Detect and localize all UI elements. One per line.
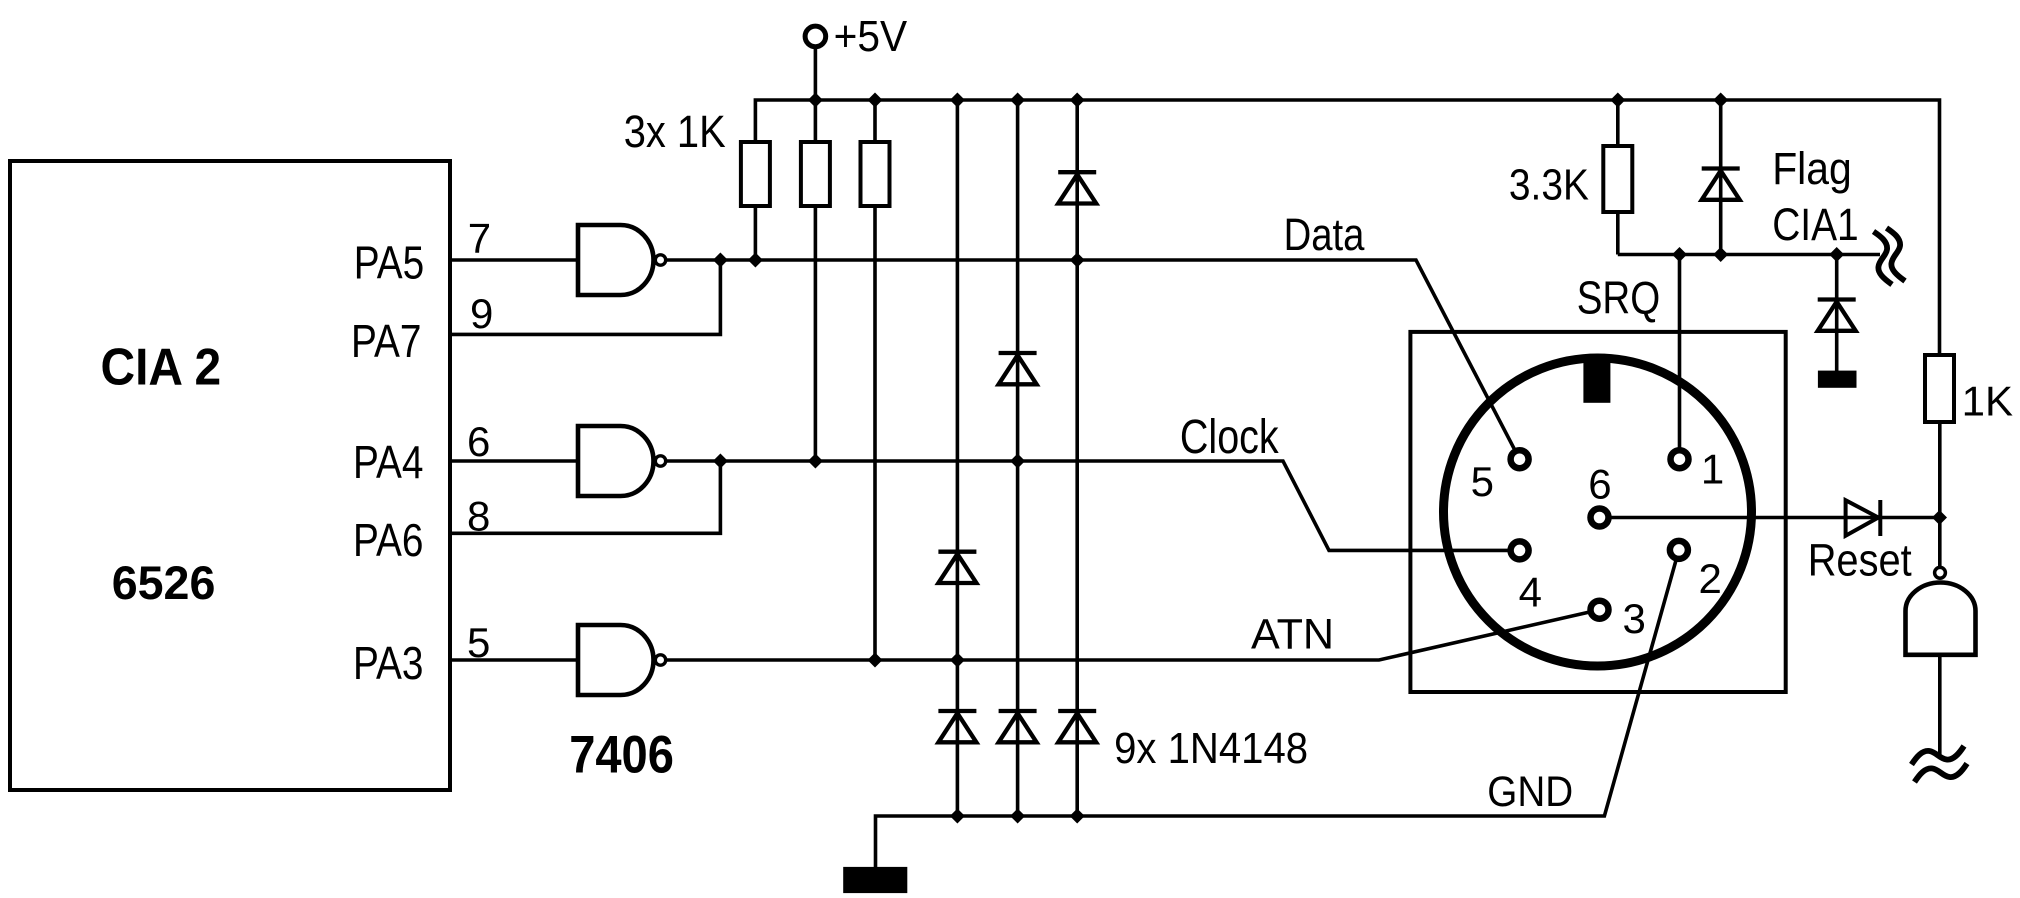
node rail x1017 — [1010, 93, 1025, 108]
svg-text:9x 1N4148: 9x 1N4148 — [1114, 724, 1308, 773]
wire R3 legs — [873, 100, 877, 660]
DIN pin 3 — [1591, 601, 1609, 619]
svg-text:CIA1: CIA1 — [1772, 199, 1859, 250]
svg-text:8: 8 — [467, 492, 490, 539]
break squiggle bottom — [1912, 746, 1965, 765]
diode D8 clamp SRQ to GND — [1818, 300, 1856, 331]
diode D1 clamp ATN to +5V — [938, 552, 976, 583]
svg-text:3: 3 — [1623, 595, 1646, 642]
svg-text:Data: Data — [1284, 209, 1366, 260]
resistor R3 1K — [861, 142, 890, 206]
wire ATN line to DIN pin 3 — [666, 610, 1600, 660]
node rail x957 — [950, 93, 965, 108]
node rail x1720 — [1713, 93, 1728, 108]
node rail x875 — [868, 93, 883, 108]
resistor R4 3.3K — [1603, 146, 1632, 212]
node gnd x957 — [950, 809, 965, 824]
wire R4 legs and SRQ line — [1618, 100, 1880, 255]
wire 1K bottom leg — [1938, 422, 1942, 568]
svg-text:PA5: PA5 — [354, 237, 424, 289]
node data x755 — [748, 253, 763, 268]
DIN pin 1 — [1671, 450, 1689, 468]
svg-text:4: 4 — [1519, 568, 1542, 615]
svg-text:5: 5 — [1471, 458, 1494, 505]
wire flag diode column — [1719, 100, 1723, 255]
resistor R1 1K — [741, 142, 770, 206]
svg-text:7406: 7406 — [569, 725, 674, 784]
resistor R5 1K — [1925, 355, 1954, 422]
node gnd x1077 — [1070, 809, 1085, 824]
wire U3 output stub — [1938, 655, 1942, 758]
svg-text:1K: 1K — [1962, 378, 2013, 425]
svg-text:5: 5 — [467, 619, 490, 666]
svg-text:+5V: +5V — [834, 12, 908, 61]
node gnd x1017 — [1010, 809, 1025, 824]
diode D2 clamp Clock to +5V — [999, 353, 1037, 384]
svg-text:6: 6 — [467, 418, 490, 465]
svg-text:6526: 6526 — [112, 556, 216, 609]
inverter U2B 7406 — [578, 426, 654, 496]
svg-text:SRQ: SRQ — [1577, 271, 1661, 323]
node clock x815 — [808, 454, 823, 469]
svg-text:3.3K: 3.3K — [1509, 160, 1589, 209]
inverter U3 input bubble — [1935, 567, 1946, 578]
wire Data line to DIN pin 5 — [666, 260, 1520, 459]
svg-text:Clock: Clock — [1180, 411, 1280, 464]
wire +5V stem — [814, 47, 818, 100]
diode D6 clamp GND to Data — [1058, 711, 1096, 742]
svg-text:3x 1K: 3x 1K — [624, 106, 726, 157]
wire diode column B — [1016, 100, 1020, 816]
wire PA3 pin 5 stub — [450, 658, 578, 662]
node srq x1679 — [1672, 247, 1687, 262]
diode D9 Reset — [1846, 500, 1881, 536]
inverter U2A 7406 — [578, 225, 654, 295]
svg-text:1: 1 — [1701, 446, 1724, 493]
wire PA4 pin 6 stub — [450, 459, 578, 463]
svg-text:ATN: ATN — [1251, 611, 1334, 659]
wire DIN pin1 drop — [1678, 255, 1682, 460]
node data x720 — [713, 253, 728, 268]
svg-text:9: 9 — [470, 290, 493, 337]
svg-text:Reset: Reset — [1808, 535, 1912, 586]
DIN connector J1 circle — [1444, 358, 1752, 666]
node rail x815 — [808, 93, 823, 108]
svg-text:2: 2 — [1699, 555, 1722, 602]
wire R2 legs — [814, 100, 818, 461]
svg-text:PA4: PA4 — [353, 436, 423, 488]
svg-text:Flag: Flag — [1772, 143, 1852, 194]
DIN pin 4 — [1511, 541, 1529, 559]
DIN key notch — [1583, 358, 1610, 403]
diode D5 clamp GND to Clock — [999, 711, 1037, 742]
svg-text:GND: GND — [1487, 768, 1573, 816]
DIN connector J1 box — [1410, 332, 1785, 692]
wire Reset line from pin 6 — [1600, 516, 1940, 520]
wire diode column A — [956, 100, 960, 816]
node rail x1617 — [1610, 93, 1625, 108]
node atn x957 — [950, 653, 965, 668]
break squiggle Flag CIA1 — [1874, 232, 1893, 285]
resistor R2 1K — [801, 142, 830, 206]
wire R1 bottom leg — [754, 206, 758, 260]
wire PA6 pin 8 feedback to Clock node — [450, 461, 720, 533]
inverter U3 gate — [1906, 583, 1976, 655]
node clock x1017 — [1010, 454, 1025, 469]
svg-text:6: 6 — [1588, 460, 1611, 507]
svg-text:PA6: PA6 — [353, 514, 423, 566]
diode D4 clamp GND to ATN — [938, 711, 976, 742]
DIN pin 2 — [1670, 541, 1688, 559]
svg-text:7: 7 — [468, 214, 491, 261]
node clock x720 — [713, 454, 728, 469]
diode D7 clamp SRQ to +5V — [1702, 169, 1740, 200]
diode D3 clamp Data to +5V — [1058, 172, 1096, 203]
wire PA7 pin 9 feedback to Data node — [450, 260, 720, 334]
svg-text:CIA 2: CIA 2 — [101, 339, 222, 397]
ground symbol main — [845, 869, 906, 892]
wire diode column C — [1075, 100, 1079, 816]
node atn x875 — [868, 653, 883, 668]
wire PA5 pin 7 stub — [450, 258, 578, 262]
ground symbol small — [1820, 372, 1855, 386]
DIN pin 6 — [1591, 509, 1609, 527]
node rail x1077 — [1070, 93, 1085, 108]
DIN pin 5 — [1511, 450, 1529, 468]
wire lower diode column — [1835, 255, 1839, 375]
wire GND bus to DIN pin 2 — [876, 550, 1679, 869]
node srq x1720 — [1713, 247, 1728, 262]
node data x1077 — [1070, 253, 1085, 268]
node reset x1939 — [1932, 510, 1947, 525]
svg-text:PA7: PA7 — [351, 315, 421, 367]
IC CIA2 U1 box — [10, 161, 450, 790]
wire +5V rail — [755, 100, 1939, 355]
node srq x1836 — [1829, 247, 1844, 262]
wire Clock line to DIN pin 4 — [666, 461, 1520, 550]
svg-text:PA3: PA3 — [353, 637, 423, 689]
inverter U2C 7406 — [578, 625, 654, 695]
terminal +5V — [805, 26, 826, 47]
